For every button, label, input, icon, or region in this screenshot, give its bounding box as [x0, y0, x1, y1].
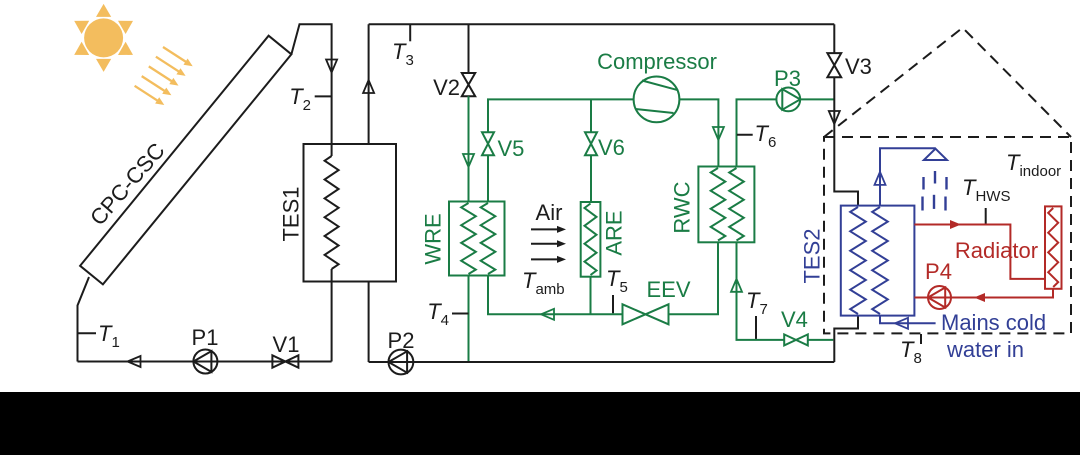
svg-text:TES1: TES1	[279, 186, 304, 241]
wire compressor discharge to RWC (arrow down)	[679, 99, 724, 166]
svg-text:WRE: WRE	[421, 213, 446, 264]
node T8	[900, 334, 922, 367]
valve V5	[482, 132, 524, 161]
shower head	[924, 149, 947, 160]
wire RWC right coil riser to P3 line	[737, 99, 835, 166]
valve V6	[585, 132, 625, 160]
svg-text:P3: P3	[774, 66, 801, 91]
label ARE	[602, 210, 627, 255]
svg-text:Radiator: Radiator	[955, 238, 1038, 263]
wire solar collector to TES1 (top)	[291, 24, 331, 156]
svg-text:V1: V1	[273, 332, 300, 357]
radiator	[955, 206, 1062, 288]
node T2	[289, 84, 331, 114]
house outline (dashed)	[824, 28, 1071, 334]
wire V2 branch from top line	[468, 24, 470, 73]
node Tamb	[522, 268, 565, 298]
wire RWC left coil to EEV	[669, 242, 719, 314]
label RWC	[670, 181, 695, 233]
compressor U1	[597, 49, 717, 122]
valve V3	[827, 53, 872, 79]
wire solar loop bottom line	[78, 361, 332, 363]
heat exchanger RWC	[698, 167, 754, 243]
solar collector CPC-CSC	[80, 36, 291, 285]
pump P3	[774, 66, 801, 111]
svg-text:P4: P4	[925, 259, 952, 284]
arrow down on collector supply	[326, 60, 337, 73]
svg-text:Air: Air	[536, 200, 563, 225]
wire mains cold water in (arrow left)	[880, 316, 936, 329]
wire collector bottom to T1 riser	[78, 277, 90, 362]
node THWS	[962, 175, 1010, 224]
svg-text:EEV: EEV	[647, 277, 691, 302]
coil ARE	[585, 204, 597, 276]
svg-text:V5: V5	[498, 136, 525, 161]
coil RWC right	[729, 168, 744, 241]
wire ARE riser through V6 to suction line	[590, 99, 592, 202]
valve V2	[433, 73, 475, 100]
node T5	[606, 266, 628, 313]
heat exchanger WRE	[449, 202, 505, 276]
coil WRE right	[481, 203, 496, 274]
label TES1	[279, 186, 304, 241]
node T7	[746, 288, 768, 339]
wire TES2 coil bottom return to loop2 bottom line	[834, 316, 858, 362]
solar irradiance arrows	[135, 47, 193, 105]
node Tindoor	[1006, 150, 1061, 180]
svg-text:V2: V2	[433, 75, 460, 100]
wire TES2 to shower (arrow up)	[875, 148, 936, 205]
wire EEV to WRE right coil (arrow left)	[488, 276, 622, 320]
node T3	[392, 24, 414, 69]
coil TES2 right	[872, 207, 888, 314]
tank TES2	[841, 206, 915, 316]
wire V3 to TES2 coil (arrow down into house)	[829, 77, 858, 205]
wire V2 to WRE (green, arrow down)	[463, 96, 474, 201]
svg-text:P1: P1	[192, 325, 219, 350]
wire WRE right coil riser through V5 to compressor suction	[488, 99, 634, 201]
tank TES1	[304, 144, 397, 282]
svg-text:Mains cold: Mains cold	[941, 310, 1046, 335]
label TES2	[800, 228, 825, 283]
valve V1	[272, 332, 299, 368]
wire loop2 top line	[369, 23, 835, 25]
coil RWC left	[711, 168, 726, 241]
arrow left on solar bottom line	[128, 356, 141, 367]
wire RWC right coil bottom to V4 (arrow up)	[731, 242, 833, 340]
wire TES1 bottom return	[368, 282, 370, 363]
svg-text:TES2: TES2	[800, 228, 825, 283]
Air flow arrows	[531, 200, 566, 263]
sun	[74, 4, 133, 72]
svg-text:Compressor: Compressor	[597, 49, 717, 74]
heat exchanger ARE	[581, 202, 601, 277]
coil WRE left	[461, 203, 476, 274]
wire TES1 supply riser (up arrow)	[363, 24, 374, 144]
label WRE	[421, 213, 446, 264]
svg-text:ARE: ARE	[602, 210, 627, 255]
node T4	[427, 299, 468, 329]
node T1	[78, 321, 120, 351]
coil TES1	[325, 156, 339, 269]
shower spray (dashed)	[923, 171, 947, 211]
valve EEV	[623, 277, 691, 324]
wire TES1 coil return riser	[331, 269, 333, 362]
valve V4	[781, 307, 808, 345]
svg-text:water in: water in	[946, 337, 1024, 362]
wire WRE left coil to bottom line	[468, 276, 470, 362]
label mains cold water in	[941, 310, 1046, 362]
svg-text:V6: V6	[598, 135, 625, 160]
svg-text:V4: V4	[781, 307, 808, 332]
pump P4	[925, 259, 952, 309]
pump P1	[192, 325, 219, 374]
wire TES2 to radiator (arrow right)	[914, 220, 1045, 279]
svg-text:P2: P2	[388, 328, 415, 353]
wire ARE bottom riser	[590, 277, 592, 315]
svg-text:V3: V3	[845, 54, 872, 79]
wire radiator return through P4 (arrow left)	[914, 289, 1053, 302]
svg-text:RWC: RWC	[670, 181, 695, 233]
coil TES2 left	[850, 207, 866, 314]
node T6	[737, 121, 776, 151]
wire loop2 bottom line	[369, 361, 835, 363]
pump P2	[388, 328, 415, 374]
wire top line to V3	[833, 24, 835, 53]
bottom black bar	[0, 392, 1080, 455]
